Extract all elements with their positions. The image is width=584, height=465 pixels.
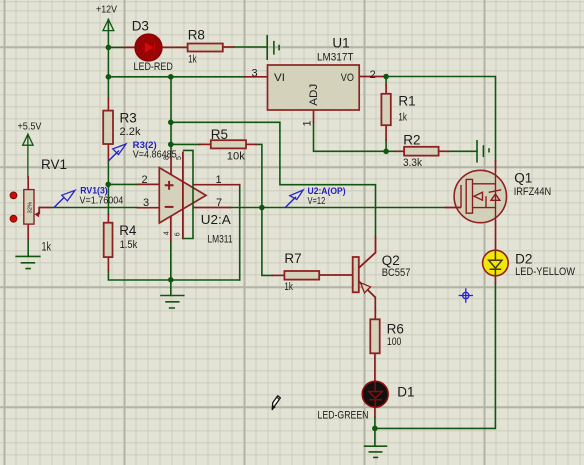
svg-text:4: 4: [163, 231, 170, 235]
wire VO to Q1 drain: [386, 77, 495, 162]
svg-text:RV1: RV1: [41, 157, 67, 172]
marker crosshair: [459, 288, 473, 302]
pin U1 VO: [359, 76, 386, 78]
pin R3 top: [107, 99, 109, 111]
node H (gnd rail): [168, 277, 174, 283]
wire R4 bottom rail: [108, 270, 239, 280]
resistor R8 1k: [188, 44, 223, 52]
svg-text:Q2: Q2: [382, 253, 400, 268]
svg-text:LM311: LM311: [208, 234, 233, 246]
wire pin1 down column: [239, 185, 241, 280]
wire RV1 bottom to ground: [27, 240, 29, 257]
pin R6 bottom to D1: [374, 353, 376, 382]
node J (R1/R2): [383, 149, 389, 155]
RV1 wiper arrow: [39, 208, 51, 215]
op-amp plus sign: [165, 181, 174, 190]
wire R5 right down to output: [256, 144, 262, 207]
RV1 terminal dot bottom: [10, 215, 17, 222]
svg-text:VO: VO: [341, 72, 354, 84]
pin D3 right to R8: [162, 46, 188, 48]
resistor R5 10k: [211, 140, 246, 148]
potentiometer RV1 body: [24, 190, 34, 225]
Q1 internal symbol: [461, 171, 501, 222]
node K (D1 bottom): [372, 426, 378, 432]
svg-text:LED-RED: LED-RED: [134, 61, 173, 73]
node F (R3/R4 pin2): [105, 182, 111, 188]
wire VI row: [108, 76, 245, 78]
svg-text:V=4.86485: V=4.86485: [133, 150, 177, 161]
pin Q1 source to D2: [495, 222, 497, 251]
wire R2 right to ground: [448, 150, 477, 152]
pin R2 left: [396, 150, 404, 152]
svg-text:2: 2: [142, 174, 148, 186]
pin R3 bottom: [107, 144, 109, 161]
svg-text:10k: 10k: [227, 150, 245, 162]
regulator U1 LM317T box: [268, 65, 360, 110]
wire wiper row to pin3: [51, 207, 138, 209]
svg-text:RV1(3): RV1(3): [80, 186, 107, 196]
wire +12V stem: [107, 19, 109, 47]
wire balance loop: [183, 150, 193, 238]
ground bottom: [365, 446, 387, 457]
svg-text:2.2k: 2.2k: [120, 126, 141, 138]
op-amp U2:A triangle: [159, 168, 206, 223]
Q2 collector: [359, 236, 376, 268]
pin Q1 drain top: [495, 161, 497, 171]
pin RV1 top: [27, 177, 29, 190]
pin R4 top: [107, 214, 109, 223]
wire op-amp gnd column: [170, 241, 172, 296]
ground right of R2: [477, 141, 489, 162]
svg-text:R7: R7: [284, 251, 301, 266]
svg-text:1k: 1k: [188, 54, 197, 66]
svg-text:LM317T: LM317T: [317, 52, 354, 64]
pin U1 ADJ: [313, 110, 315, 122]
pin D3 left: [125, 46, 135, 48]
svg-text:D1: D1: [397, 384, 414, 399]
LED D3 body: [135, 34, 162, 61]
wire feedback top y122: [171, 122, 376, 236]
resistor R3 2.2k: [103, 111, 113, 144]
ground top-right of R8: [267, 36, 279, 60]
svg-text:R5: R5: [211, 127, 228, 142]
node E (R5 left): [168, 142, 174, 148]
svg-text:ADJ: ADJ: [308, 84, 320, 106]
resistor R1 1k: [381, 94, 390, 125]
Q2 emitter arrow: [361, 283, 371, 293]
resistor R2 3.3k: [404, 147, 439, 156]
svg-text:3: 3: [143, 197, 149, 209]
pin R5 left: [200, 143, 211, 145]
resistor R6 100: [370, 319, 379, 353]
probe arrow RV1(3): [54, 197, 65, 208]
wire D2 bottom to D1 node: [375, 283, 496, 428]
pin R7 right to Q2 base: [319, 274, 353, 276]
svg-text:U2:A(OP): U2:A(OP): [308, 186, 346, 196]
pin op-amp 5/6 balance: [182, 152, 184, 240]
pin R1 top: [385, 85, 387, 94]
Q2 emitter: [359, 281, 376, 297]
probe arrow U2:A(OP): [286, 197, 297, 208]
pin Q1 gate: [445, 207, 461, 209]
mosfet Q1 body circle: [454, 170, 506, 222]
svg-text:R3(2): R3(2): [133, 140, 157, 150]
power +5.5V: [23, 134, 33, 177]
wire Q2 emitter to R6: [374, 308, 376, 313]
wire U1-VI column x171: [170, 77, 172, 158]
wire pin2 row: [108, 183, 137, 185]
pin U1 VI: [245, 76, 268, 78]
node C (VI row mid): [168, 74, 174, 80]
svg-text:100: 100: [387, 336, 402, 348]
svg-text:32%: 32%: [28, 202, 34, 214]
svg-text:1k: 1k: [42, 242, 52, 254]
svg-text:1k: 1k: [398, 112, 407, 124]
wire output row to Q1 gate: [230, 207, 445, 209]
svg-text:5: 5: [176, 156, 183, 160]
svg-text:1: 1: [216, 174, 222, 186]
wire R5 left: [171, 143, 200, 145]
svg-text:1k: 1k: [284, 281, 293, 293]
probe arrow R3(2): [109, 151, 119, 161]
wire D3 row left: [108, 46, 125, 48]
svg-text:+12V: +12V: [96, 5, 117, 16]
svg-text:R3: R3: [120, 111, 137, 126]
svg-text:7: 7: [216, 197, 222, 209]
node I (VO/R1): [383, 74, 389, 80]
op-amp minus sign: [165, 206, 174, 208]
node A (+12V/D3): [106, 45, 112, 51]
pin R5 right: [246, 143, 256, 145]
svg-text:R4: R4: [119, 223, 137, 238]
pin D1 bottom: [374, 406, 376, 417]
pin op-amp 8: [170, 158, 172, 176]
pin R4 bottom: [107, 257, 109, 270]
node B (VI row left): [106, 74, 112, 80]
svg-text:IRFZ44N: IRFZ44N: [514, 186, 552, 198]
wire R3 bottom to R4 top: [107, 161, 109, 214]
pin Q2 emitter to R6: [374, 297, 376, 319]
pin D2 bottom: [494, 276, 496, 283]
svg-text:U1: U1: [332, 36, 349, 51]
pin op-amp 7 wire: [194, 207, 231, 209]
svg-text:1.5k: 1.5k: [120, 239, 138, 251]
pin RV1 bottom: [27, 224, 29, 240]
svg-text:R8: R8: [188, 28, 205, 43]
node D (feedback top): [168, 120, 174, 126]
node G (output/R7): [259, 205, 265, 211]
svg-text:2: 2: [370, 69, 376, 81]
pin op-amp 1 wire: [194, 184, 240, 186]
svg-text:Q1: Q1: [514, 170, 532, 185]
wire D1 to node: [374, 417, 376, 446]
ground below RV1: [16, 256, 40, 268]
pin R8 right: [223, 46, 234, 48]
svg-text:1: 1: [302, 120, 314, 126]
svg-text:U2:A: U2:A: [201, 212, 231, 227]
power +12V: [103, 19, 114, 30]
LED D1 symbol: [369, 382, 383, 408]
resistor R7 1k: [284, 271, 319, 280]
svg-text:+5.5V: +5.5V: [18, 121, 42, 132]
svg-text:3: 3: [252, 68, 258, 80]
pin R2 right: [439, 150, 448, 152]
LED D2 body: [483, 250, 509, 276]
ground below op-amp: [161, 296, 184, 309]
svg-text:LED-GREEN: LED-GREEN: [318, 409, 369, 421]
LED D2 symbol: [489, 251, 502, 276]
svg-text:V=1.76004: V=1.76004: [80, 195, 124, 206]
LED D1 body: [362, 381, 388, 407]
pin op-amp 4: [170, 213, 172, 241]
wire R1 top: [385, 77, 387, 86]
cursor pencil: [272, 396, 280, 410]
svg-text:D2: D2: [515, 252, 532, 267]
pin R7 left: [273, 274, 285, 276]
pin R1 bottom: [385, 125, 387, 140]
svg-text:LED-YELLOW: LED-YELLOW: [515, 266, 576, 278]
wire U1 ADJ to R2 row: [314, 122, 397, 151]
pin op-amp 2: [138, 183, 160, 185]
LED D3 arrow: [145, 42, 153, 52]
svg-text:BC557: BC557: [382, 267, 411, 279]
wire +12V column to R3: [107, 47, 109, 99]
resistor R4 1.5k: [104, 223, 113, 257]
RV1 terminal dot top: [10, 192, 17, 199]
wire output node to R7: [262, 208, 273, 276]
svg-text:VI: VI: [274, 72, 285, 84]
svg-text:V=12: V=12: [308, 196, 326, 207]
svg-text:3.3k: 3.3k: [403, 157, 422, 169]
wire R8 to ground: [234, 46, 268, 48]
svg-text:R1: R1: [398, 93, 415, 108]
svg-text:D3: D3: [132, 19, 149, 34]
svg-text:R2: R2: [403, 132, 420, 147]
pin op-amp 3: [138, 207, 160, 209]
svg-text:R6: R6: [387, 322, 404, 337]
transistor Q2 base bar: [353, 257, 359, 292]
svg-text:6: 6: [174, 232, 181, 236]
wire R1 bottom to node: [385, 140, 387, 151]
